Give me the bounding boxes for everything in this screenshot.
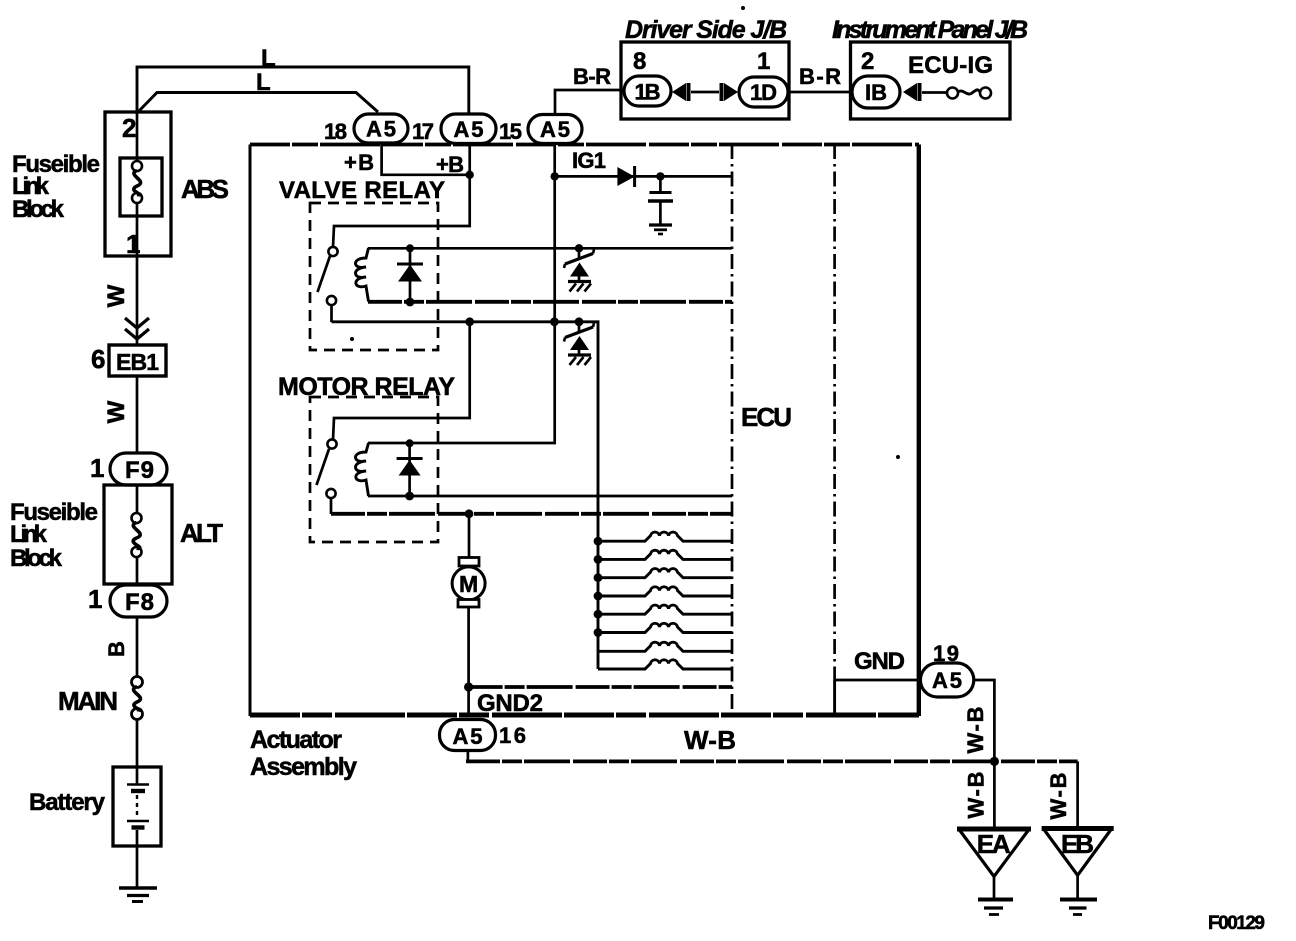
svg-text:EA: EA (977, 829, 1011, 859)
solenoid coil 3 (598, 569, 732, 578)
motor relay switched output wire (331, 509, 732, 518)
svg-text:2: 2 (122, 113, 136, 143)
actuator assembly box (250, 145, 919, 782)
svg-text:ABS: ABS (181, 174, 229, 204)
svg-text:F8: F8 (125, 589, 154, 616)
wire W-B main run from A5-16 (466, 725, 1078, 766)
solenoid coil 1 (598, 532, 732, 541)
wire from valve output down to motor relay switch (333, 322, 470, 440)
svg-text:1B: 1B (635, 80, 661, 105)
svg-text:GND2: GND2 (477, 690, 543, 717)
ground point EB (1042, 829, 1114, 915)
wire relay to motor (468, 514, 471, 558)
wire B from F8 to MAIN (104, 617, 137, 677)
ECU dash-dot boundary right (833, 144, 836, 716)
svg-text:M: M (459, 571, 478, 597)
wire W-B from A5-19 down (963, 680, 994, 761)
connector 1D pin 1 (739, 48, 788, 107)
svg-text:6: 6 (91, 344, 105, 374)
wire GND stub from ECU (835, 648, 922, 680)
svg-text:W-B: W-B (684, 725, 736, 755)
wire +B pin17 down to relays (333, 144, 470, 248)
junction +B (466, 171, 474, 179)
svg-text:1: 1 (757, 48, 770, 75)
ground (battery) (119, 888, 157, 902)
switch ECU-IG (908, 52, 993, 99)
svg-text:W: W (103, 400, 130, 423)
motor relay dashed box (310, 397, 438, 542)
motor relay coil (355, 443, 368, 496)
zener diode Z1 to chassis (564, 244, 594, 291)
fusible link block ALT (10, 485, 223, 585)
capacitor to ground inside ECU (648, 172, 673, 224)
wire B-R from 1D to IB (788, 64, 852, 92)
svg-text:A5: A5 (540, 117, 570, 142)
connector A5 pin 16 (440, 720, 527, 751)
svg-text:EB: EB (1061, 829, 1094, 859)
svg-text:L: L (261, 45, 276, 72)
svg-text:Actuator: Actuator (250, 726, 342, 754)
svg-text:ALT: ALT (180, 518, 223, 548)
connector A5 pin 18 (324, 114, 408, 144)
svg-text:A5: A5 (366, 117, 396, 142)
svg-text:18: 18 (324, 119, 347, 144)
ECU label (741, 402, 792, 432)
motor relay switch (317, 439, 337, 514)
ECU dash-dot boundary left (731, 144, 734, 716)
svg-text:A5: A5 (454, 117, 484, 142)
svg-text:L: L (256, 69, 271, 96)
connector A5 pin 17 (412, 114, 496, 144)
fuse MAIN (58, 677, 143, 720)
valve relay coil (355, 248, 368, 302)
zener diode Z2 to chassis (564, 322, 594, 365)
wire motor to GND2 (464, 607, 473, 716)
motor relay diode D2 (397, 439, 423, 500)
svg-text:F9: F9 (125, 457, 154, 484)
wire GND2 to ECU (469, 687, 732, 717)
svg-text:A5: A5 (932, 668, 962, 693)
svg-text:IB: IB (865, 80, 887, 105)
svg-text:W-B: W-B (963, 707, 988, 754)
valve relay dashed box (310, 203, 438, 350)
connector EB1 pin 6 (91, 344, 166, 376)
svg-text:VALVE RELAY: VALVE RELAY (279, 177, 445, 204)
solenoid coil 7 (598, 642, 732, 651)
svg-text:MAIN: MAIN (58, 686, 118, 716)
svg-text:A5: A5 (453, 724, 483, 749)
wire +B pin18 (344, 144, 470, 176)
ground point EA (957, 829, 1031, 915)
solenoid coil 4 (598, 587, 732, 596)
figure number F00129 (1208, 913, 1265, 934)
svg-text:GND: GND (854, 648, 905, 675)
svg-text:Assembly: Assembly (250, 753, 357, 781)
svg-text:B: B (104, 641, 129, 657)
valve relay switch (318, 247, 338, 322)
speck (741, 6, 745, 10)
splice arrow into EB1 (125, 318, 149, 339)
valve relay diode D1 (397, 244, 423, 306)
svg-text:Driver Side J/B: Driver Side J/B (625, 16, 787, 44)
svg-text:IG1: IG1 (572, 148, 606, 173)
valve relay coil bottom wire to ECU (368, 300, 732, 304)
Instrument Panel J/B (832, 16, 1028, 119)
svg-text:ECU-IG: ECU-IG (908, 52, 993, 79)
svg-text:W-B: W-B (964, 772, 989, 819)
VALVE RELAY label (279, 177, 445, 204)
wire W from EB1 to F9 (103, 376, 137, 455)
svg-text:17: 17 (412, 119, 434, 144)
connector F9 pin 1 (90, 453, 167, 485)
wire L upper from fusible link to connector A5-17 (137, 45, 469, 113)
svg-text:ECU: ECU (741, 402, 792, 432)
solenoid coil 8 (598, 660, 732, 669)
solenoid coil 2 (598, 550, 732, 559)
MOTOR RELAY label (278, 373, 455, 401)
connector F8 pin 1 (88, 584, 167, 617)
svg-text:Instrument Panel J/B: Instrument Panel J/B (832, 16, 1028, 44)
svg-text:1: 1 (88, 584, 102, 614)
svg-text:15: 15 (499, 119, 522, 144)
svg-text:Block: Block (12, 196, 65, 223)
pump motor M (452, 558, 485, 608)
svg-text:B-R: B-R (799, 64, 841, 89)
solenoid coil 6 (598, 623, 732, 632)
connector 1B pin 8 (624, 48, 671, 106)
svg-text:8: 8 (633, 48, 646, 75)
wire W from ABS block to EB1 (103, 256, 137, 345)
connector arrow IB (903, 83, 920, 101)
wire B-R from A5-15 to 1B (555, 64, 624, 115)
connector IB pin 2 (852, 48, 900, 108)
svg-text:Block: Block (10, 545, 63, 572)
battery (29, 767, 161, 846)
motor relay coil bottom wire to ECU (368, 495, 732, 498)
fusible link block ABS (12, 112, 229, 259)
svg-text:W-B: W-B (1046, 773, 1071, 820)
valve relay coil top wire to ECU (368, 247, 732, 250)
connector A5 pin 15 (499, 115, 582, 145)
svg-text:B-R: B-R (573, 64, 611, 89)
svg-text:+B: +B (436, 152, 464, 177)
IG1 wire to ECU (555, 148, 732, 176)
svg-text:F00129: F00129 (1208, 913, 1265, 934)
diode D3 on IG1 line (617, 166, 634, 187)
solenoid bank feed junctions (594, 537, 603, 637)
connector arrows 1B to 1D (672, 83, 738, 101)
svg-text:2: 2 (861, 48, 874, 75)
wire IG1 from A5-15 (368, 144, 559, 444)
svg-text:1: 1 (90, 453, 104, 483)
ground (capacitor) (649, 225, 672, 234)
svg-text:+B: +B (344, 150, 374, 175)
wire W-B to EA (964, 761, 995, 829)
connector A5 pin 19 (920, 641, 973, 697)
wire L lower from fusible link to connector A5-18 (138, 69, 378, 112)
svg-text:1D: 1D (750, 80, 777, 105)
solenoid coil 5 (598, 605, 732, 614)
Driver Side J/B (621, 16, 789, 119)
svg-text:EB1: EB1 (116, 349, 159, 375)
wire MAIN to battery (136, 719, 139, 767)
wire W-B to EB (1046, 761, 1078, 829)
wire battery to ground (136, 846, 139, 887)
svg-text:W: W (103, 284, 130, 307)
valve relay switched output wire (332, 317, 599, 669)
svg-text:Battery: Battery (29, 789, 106, 816)
svg-text:Link: Link (10, 521, 48, 548)
